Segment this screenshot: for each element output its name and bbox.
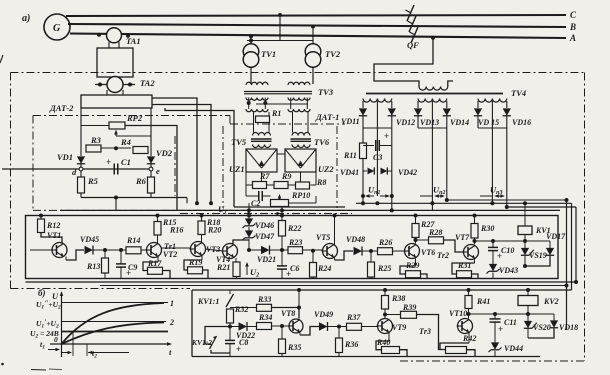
resistor R40 — [388, 333, 390, 342]
svg-text:R37: R37 — [346, 313, 361, 322]
svg-text:VT9: VT9 — [392, 323, 406, 332]
diode VD18 — [553, 314, 555, 321]
svg-text:б): б) — [38, 288, 46, 298]
svg-text:A: A — [569, 33, 576, 43]
resistor R1 — [256, 116, 270, 123]
svg-text:R34: R34 — [258, 313, 272, 322]
resistor R36 — [337, 325, 341, 329]
svg-text:R13: R13 — [86, 262, 100, 271]
svg-text:VD16: VD16 — [512, 118, 531, 127]
node e — [150, 164, 152, 167]
svg-text:VD44: VD44 — [504, 344, 523, 353]
svg-text:R28: R28 — [428, 228, 442, 237]
resistor R11 — [360, 143, 367, 159]
svg-text:U2 = 24В: U2 = 24В — [30, 329, 59, 340]
resistor R42 — [468, 333, 470, 344]
capacitor C2 — [245, 185, 247, 196]
boundary DAT-2 box — [33, 115, 230, 117]
svg-text:+: + — [106, 157, 111, 167]
rectifier UZ2 — [285, 149, 316, 172]
svg-text:R21: R21 — [216, 263, 230, 272]
wire QF to TV4 — [431, 36, 435, 40]
diode VD17 — [549, 241, 551, 248]
wire TV3 mid connector — [256, 103, 308, 105]
transistor VT10 — [458, 319, 473, 334]
relay KV1 — [524, 203, 526, 226]
transistor VT4 — [223, 244, 238, 259]
transformer TV6 — [292, 133, 310, 136]
wire DAT2 left column — [80, 108, 82, 156]
transformer TV4 core — [366, 93, 503, 95]
resistor R32 — [227, 309, 234, 323]
svg-text:C3: C3 — [373, 153, 382, 162]
capacitor C1 — [113, 164, 115, 175]
diode VD14 — [417, 101, 419, 108]
resistor R35 — [280, 324, 284, 328]
svg-text:R24: R24 — [317, 264, 331, 273]
boundary outer right — [584, 73, 586, 362]
svg-text:R39: R39 — [402, 303, 416, 312]
label U2 arrow — [246, 263, 248, 275]
diode VD1 — [77, 156, 85, 163]
wire VT2-VT3 — [162, 247, 191, 249]
block DAT-2 head — [81, 95, 152, 108]
wire rail 207 left — [234, 206, 345, 208]
svg-text:VD45: VD45 — [80, 235, 99, 244]
capacitor C10 — [492, 241, 494, 247]
wire rail 207 right — [507, 206, 576, 208]
diode VD49 — [299, 332, 301, 335]
resistor R33 — [230, 307, 257, 309]
svg-text:R5: R5 — [87, 176, 99, 186]
svg-text:VD 15: VD 15 — [478, 118, 499, 127]
svg-text:C6: C6 — [290, 264, 299, 273]
transformer TV2 — [311, 25, 315, 29]
svg-text:R30: R30 — [480, 224, 494, 233]
svg-text:VD13: VD13 — [420, 118, 439, 127]
svg-text:R9: R9 — [281, 172, 291, 181]
diode VD43 — [492, 262, 494, 265]
svg-text:ТV1: ТV1 — [261, 49, 276, 59]
svg-text:ТV3: ТV3 — [318, 87, 334, 97]
svg-text:ТV6: ТV6 — [314, 137, 330, 147]
graph curve 1 — [62, 303, 165, 344]
svg-text:ДАТ-1: ДАТ-1 — [315, 112, 339, 122]
capacitor C3 — [363, 145, 374, 147]
wire bus A — [70, 34, 566, 39]
wire VT7 collector row — [473, 239, 477, 243]
stray scan mark bottom left — [31, 369, 46, 372]
resistor R30 — [473, 214, 477, 218]
svg-text:G: G — [53, 23, 61, 34]
diode VD2 — [147, 156, 155, 163]
wire R5-R6 bottom — [81, 197, 187, 199]
switch KV1:1 — [229, 290, 231, 294]
switch KV1:2 — [205, 327, 230, 345]
svg-text:R20: R20 — [207, 226, 221, 235]
svg-text:R31: R31 — [457, 261, 471, 270]
wire bus B — [68, 24, 566, 27]
wire d-e — [2, 168, 79, 170]
resistor R19 — [201, 256, 203, 260]
transformer TV5 — [253, 133, 271, 136]
diode VD41 — [363, 170, 367, 172]
svg-text:VD47: VD47 — [255, 232, 275, 241]
dimension U1 — [180, 213, 352, 215]
svg-text:KV1:1: KV1:1 — [197, 297, 219, 306]
svg-text:KV1:2: KV1:2 — [191, 338, 212, 347]
resistor R27 — [414, 214, 418, 218]
wire rail 210 — [60, 209, 560, 211]
wire UZ outputs — [245, 172, 247, 185]
svg-text:VD17: VD17 — [546, 232, 566, 241]
wire rail right 213 — [447, 199, 567, 201]
svg-text:–: – — [105, 142, 111, 152]
diode VD44 — [494, 340, 496, 343]
diode VD47 — [248, 227, 250, 231]
svg-text:C10: C10 — [501, 246, 514, 255]
svg-text:2: 2 — [169, 318, 174, 327]
svg-text:VD14: VD14 — [450, 118, 469, 127]
wire from RP2 right — [125, 126, 177, 211]
svg-text:R17: R17 — [147, 259, 162, 268]
svg-text:R36: R36 — [344, 340, 358, 349]
resistor R8 — [296, 182, 310, 189]
transistor VT8 — [289, 319, 303, 333]
wire VT4 collector — [233, 240, 249, 245]
svg-text:VD41: VD41 — [340, 168, 359, 177]
resistor R38 — [383, 288, 387, 292]
capacitor C8 — [228, 325, 232, 329]
wire rect2 rails — [446, 128, 448, 200]
svg-text:R22: R22 — [287, 224, 301, 233]
svg-text:Тr3: Тr3 — [419, 327, 431, 336]
graph U2 line — [62, 331, 169, 333]
svg-text:C1: C1 — [121, 157, 131, 167]
relay KV2 — [527, 290, 529, 296]
svg-text:B: B — [569, 22, 576, 32]
thyristor VS20 — [527, 306, 529, 315]
wire DAT2 right column — [150, 108, 152, 156]
svg-text:KV2: KV2 — [543, 297, 559, 306]
svg-text:R35: R35 — [287, 343, 301, 352]
svg-text:R26: R26 — [378, 238, 392, 247]
block TA box — [97, 48, 133, 77]
svg-text:VD2: VD2 — [156, 148, 173, 158]
svg-text:R14: R14 — [126, 236, 140, 245]
potentiometer RP10 — [271, 200, 289, 207]
wire TV5 primary leads — [253, 112, 255, 133]
wire to rail — [115, 198, 117, 211]
svg-text:+: + — [498, 324, 503, 334]
svg-text:QF: QF — [407, 40, 419, 50]
wire VT10 collector row — [467, 312, 471, 316]
svg-text:VT1: VT1 — [47, 231, 61, 240]
svg-text:ТА2: ТА2 — [140, 78, 155, 88]
svg-text:VT10: VT10 — [449, 309, 467, 318]
svg-text:e: e — [156, 166, 160, 176]
resistor R29 — [415, 259, 417, 267]
svg-text:VD12: VD12 — [396, 118, 415, 127]
svg-text:R7: R7 — [259, 172, 270, 181]
resistor R34 — [257, 323, 272, 330]
svg-text:Тr2: Тr2 — [437, 251, 449, 260]
transistor VT2 — [147, 243, 162, 258]
transformer TV4 secondary 1 — [363, 99, 392, 103]
svg-text:R6: R6 — [135, 176, 147, 186]
svg-text:ТV2: ТV2 — [325, 49, 341, 59]
graph gridline 1 — [62, 302, 169, 304]
boundary outer left — [10, 73, 12, 289]
svg-text:VD11: VD11 — [341, 117, 360, 126]
svg-text:VD46: VD46 — [255, 221, 274, 230]
transformer TV1 — [249, 34, 253, 38]
resistor R31 — [474, 260, 476, 264]
wire UZ link — [277, 153, 285, 155]
wire from DAT2 right 2 — [152, 105, 211, 204]
svg-text:R38: R38 — [391, 294, 405, 303]
resistor R14 — [126, 247, 141, 254]
diode VD45 — [65, 257, 67, 261]
svg-text:U1'+U2: U1'+U2 — [36, 318, 59, 330]
svg-text:ДАТ-2: ДАТ-2 — [49, 103, 74, 113]
transistor VT3 — [191, 242, 206, 257]
dimension Up2 — [435, 195, 443, 197]
svg-text:VT6: VT6 — [421, 248, 435, 257]
resistor R13 — [103, 248, 107, 252]
wire from DAT2 right 3 — [165, 108, 234, 207]
resistor R25 — [369, 249, 373, 253]
svg-text:R11: R11 — [343, 151, 357, 160]
svg-text:VT7: VT7 — [455, 233, 470, 242]
svg-text:VT2: VT2 — [163, 250, 177, 259]
capacitor C11 — [494, 314, 496, 319]
wire TV jumper — [247, 40, 313, 42]
diode VD42 — [381, 168, 388, 175]
graph axes — [61, 293, 63, 357]
svg-text:C11: C11 — [504, 318, 517, 327]
current transformer TA2 — [95, 84, 135, 86]
rectifier UZ1 — [246, 149, 277, 172]
resistor R15 R16 — [156, 214, 160, 218]
svg-text:R19: R19 — [188, 258, 202, 267]
transistor VT7 — [464, 245, 479, 260]
resistor R7 — [253, 182, 267, 189]
resistor R5 — [80, 171, 82, 177]
svg-text:R12: R12 — [46, 221, 60, 230]
svg-text:R1: R1 — [271, 109, 281, 118]
boundary DAT-1 box — [229, 116, 231, 125]
svg-text:RP2: RP2 — [126, 113, 143, 123]
resistor R26 — [378, 248, 393, 255]
capacitor C6 — [281, 250, 283, 266]
dimension Up3 — [495, 195, 503, 197]
transistor VT1 — [52, 243, 67, 258]
resistor R22 — [281, 207, 283, 221]
svg-text:VT8: VT8 — [281, 309, 295, 318]
resistor R24 — [311, 249, 315, 253]
svg-text:R3: R3 — [90, 135, 102, 145]
svg-text:+: + — [384, 131, 389, 141]
resistor R6 — [150, 171, 152, 177]
svg-text:R25: R25 — [377, 264, 391, 273]
svg-text:ТV5: ТV5 — [231, 137, 247, 147]
svg-text:VD43: VD43 — [499, 266, 518, 275]
diode VD21 — [247, 248, 251, 252]
wire right vertical A — [566, 200, 568, 330]
diode VD12 — [362, 101, 364, 108]
transistor VT9 — [378, 319, 393, 334]
generator G — [44, 14, 70, 40]
resistor R9 — [274, 182, 288, 189]
svg-text:R42: R42 — [462, 334, 476, 343]
transformer TV4 secondary 3 — [478, 99, 507, 103]
boundary outer top — [11, 72, 585, 74]
resistor R23 — [280, 248, 284, 252]
svg-text:VD18: VD18 — [559, 323, 578, 332]
svg-text:R41: R41 — [476, 297, 490, 306]
transformer TV4 secondary 2 — [418, 99, 447, 103]
svg-text:VS20: VS20 — [533, 323, 551, 332]
block amplifier — [26, 216, 559, 279]
transistor VT5 — [323, 244, 338, 259]
diode VD16 — [477, 101, 479, 108]
svg-text:а): а) — [22, 13, 30, 24]
svg-text:VT5: VT5 — [316, 233, 330, 242]
svg-text:R23: R23 — [288, 238, 302, 247]
svg-text:UZ2: UZ2 — [318, 164, 334, 174]
svg-text:VD49: VD49 — [314, 310, 333, 319]
block bottom — [192, 289, 572, 291]
svg-text:VS19: VS19 — [529, 251, 547, 260]
resistor R4 — [133, 147, 148, 154]
svg-text:1: 1 — [170, 299, 174, 308]
resistor R12 — [39, 214, 43, 218]
svg-text:RP10: RP10 — [291, 191, 310, 200]
wire from DAT2 right 1 — [152, 98, 197, 203]
svg-text:VD1: VD1 — [57, 152, 73, 162]
graph gridline 2 — [62, 321, 167, 323]
svg-text:R40: R40 — [376, 338, 390, 347]
graph dimension — [48, 349, 59, 351]
svg-text:U1"+U2: U1"+U2 — [36, 299, 61, 311]
resistor R17 — [157, 257, 159, 262]
wire VT3-VT4 — [206, 249, 223, 251]
svg-text:ТV4: ТV4 — [511, 88, 526, 98]
wire rect3 rails — [506, 128, 508, 207]
boundary bottom right — [400, 360, 585, 362]
wire rect1 rails — [362, 128, 364, 143]
resistor R41 — [467, 288, 471, 292]
circuit breaker QF — [407, 5, 414, 21]
resistor R3 — [86, 145, 101, 152]
svg-text:UZ1: UZ1 — [229, 164, 245, 174]
svg-text:C: C — [570, 10, 577, 20]
wire rail 282 — [26, 281, 577, 283]
capacitor C9 — [119, 248, 123, 252]
svg-text:VD22: VD22 — [236, 331, 255, 340]
resistor R28 — [414, 238, 418, 242]
current transformer TA1 — [97, 33, 101, 37]
svg-text:ТА1: ТА1 — [126, 36, 141, 46]
wire TA1 secondary — [108, 42, 110, 48]
wire TV3 leads — [248, 98, 250, 110]
transformer TV3 — [246, 82, 268, 85]
diode VD46 — [248, 203, 250, 219]
svg-text:R16: R16 — [169, 226, 183, 235]
svg-text:R33: R33 — [257, 295, 271, 304]
stray scan mark left edge — [0, 55, 3, 63]
svg-text:R29: R29 — [405, 261, 419, 270]
resistor R39 — [383, 313, 387, 317]
diode VD22 — [230, 326, 239, 328]
node d — [80, 164, 82, 167]
diode VD48 — [334, 257, 336, 260]
wire VT8 collector up — [298, 290, 300, 308]
thyristor VS19 — [524, 235, 526, 242]
dimension Up1 — [361, 194, 365, 198]
svg-text:VD21: VD21 — [257, 255, 276, 264]
resistor R21 — [235, 258, 237, 262]
boundary bottom left — [11, 288, 191, 290]
graph curve 2 — [62, 323, 165, 345]
svg-text:C9: C9 — [128, 263, 137, 272]
wire rail 203 — [356, 202, 572, 204]
svg-text:VD42: VD42 — [398, 168, 417, 177]
svg-text:VD48: VD48 — [346, 235, 365, 244]
potentiometer RP2 — [81, 125, 109, 127]
transistor VT6 — [405, 244, 420, 259]
resistor R37 — [347, 323, 362, 330]
resistor R18 R20 — [200, 214, 204, 218]
wire bus C — [66, 15, 566, 16]
transformer TV4 primary — [419, 87, 448, 91]
svg-text:R32: R32 — [234, 305, 248, 314]
wire TA2 to DAT-2 — [106, 90, 108, 95]
svg-text:R8: R8 — [316, 178, 326, 187]
svg-text:R4: R4 — [120, 137, 131, 147]
wire rail 285 — [100, 285, 567, 287]
